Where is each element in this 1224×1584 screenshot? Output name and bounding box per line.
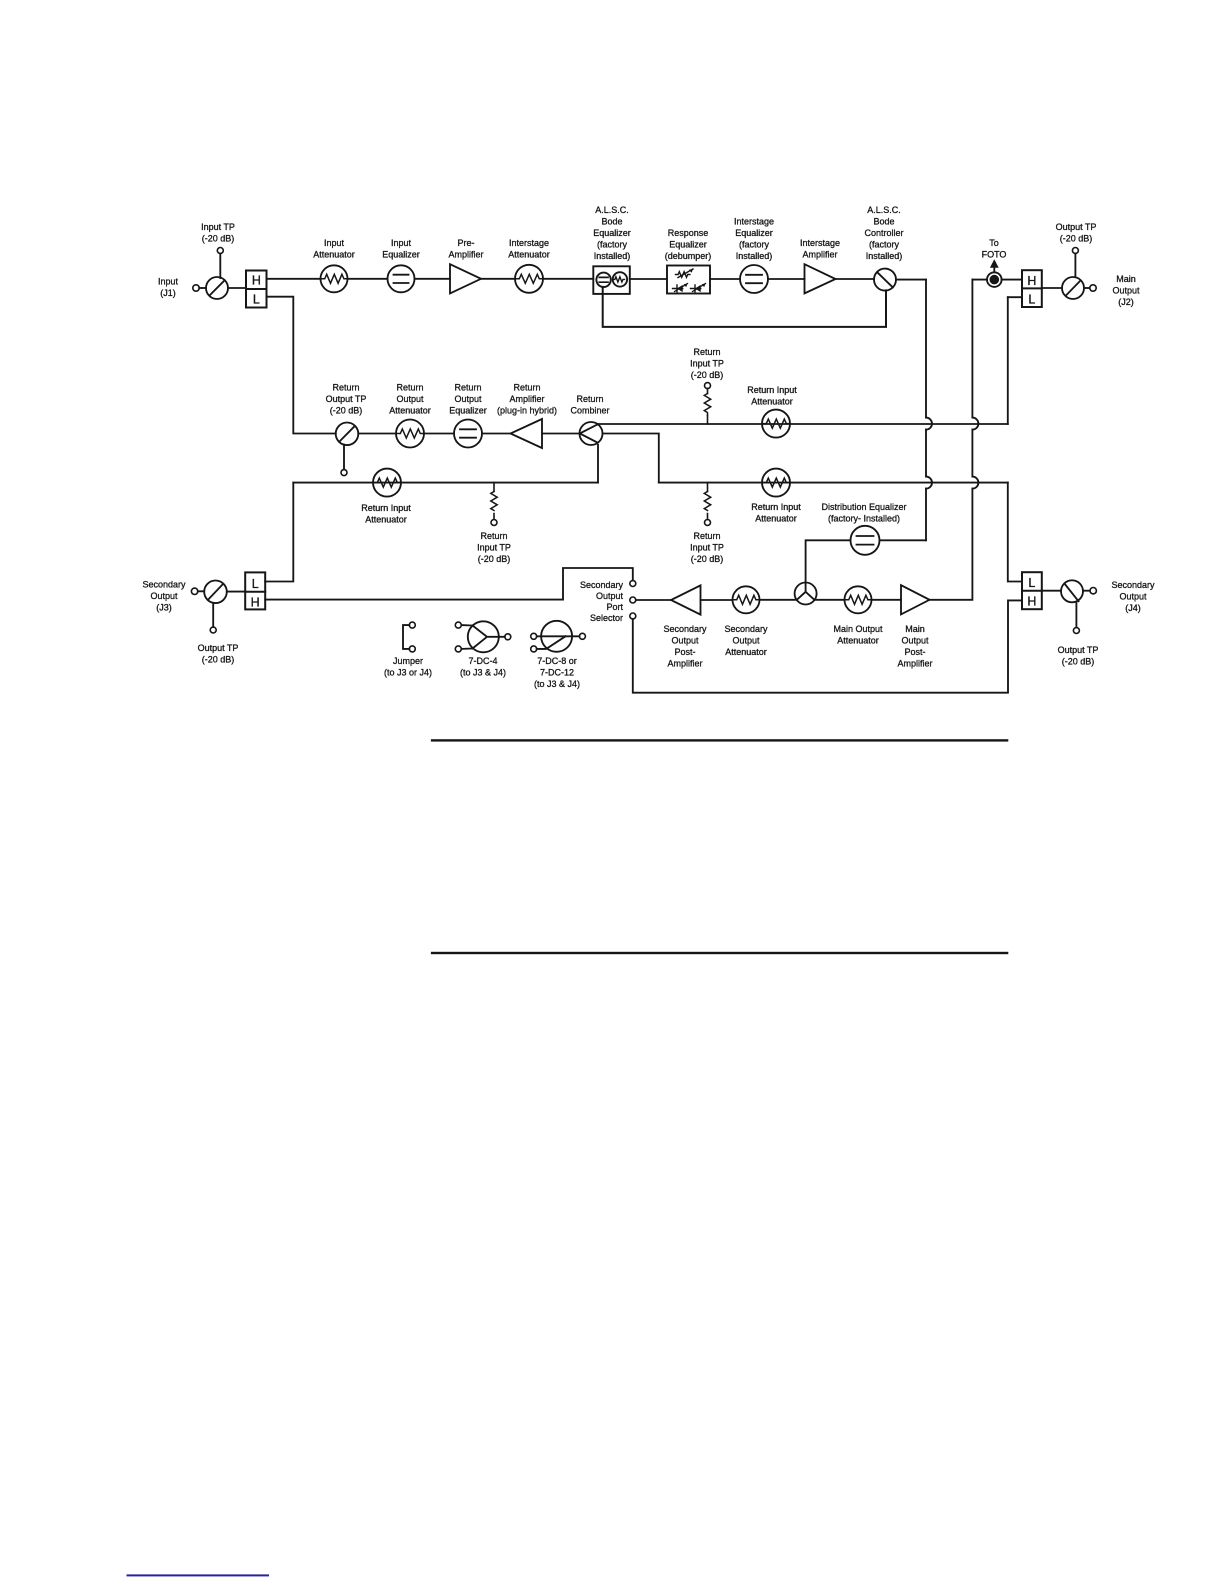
main output post-amplifier label	[897, 624, 932, 669]
rule top	[431, 739, 1008, 741]
wire TP1 to diplexer	[228, 287, 246, 289]
svg-text:Output: Output	[901, 636, 929, 646]
footnote rule (blue)	[127, 1574, 270, 1576]
wire TP3 to return output attenuator	[358, 433, 396, 435]
resistor test point tap R2 (down from y483 at x494)	[491, 483, 497, 526]
svg-text:Main: Main	[1116, 274, 1136, 284]
node Input (J1) label	[158, 277, 179, 299]
rule bottom	[431, 952, 1008, 954]
interstage attenuator label	[508, 238, 550, 260]
terminal J1	[193, 285, 199, 291]
diplex filter H/L (left)	[246, 271, 267, 308]
wire to response equalizer	[630, 278, 667, 280]
coupler 7-DC-8 / 7-DC-12	[531, 621, 586, 652]
svg-text:Secondary: Secondary	[1111, 580, 1155, 590]
main output attenuator label	[833, 624, 883, 646]
attenuator symbol (Return Input Attenuator, J2 path)	[762, 410, 790, 438]
svg-text:Input TP: Input TP	[690, 359, 724, 369]
svg-text:7-DC-8 or: 7-DC-8 or	[537, 656, 577, 666]
wire vertical x293 (J3 return riser)	[265, 483, 293, 582]
svg-text:(to J3 or J4): (to J3 or J4)	[384, 668, 432, 678]
svg-text:FOTO: FOTO	[982, 250, 1007, 260]
svg-text:L: L	[252, 577, 259, 591]
wire controller to right corner	[896, 279, 926, 281]
wire to secondary output attenuator	[701, 599, 733, 601]
svg-text:Return Input: Return Input	[747, 385, 797, 395]
port selector contact 2	[630, 597, 636, 603]
coupler A.L.S.C. Bode Controller	[874, 269, 896, 291]
op-amp Return Amplifier triangle (left pointing)	[511, 419, 543, 448]
svg-text:Return: Return	[693, 347, 720, 357]
wire L in from vertical x1008	[1008, 296, 1022, 298]
Response Equalizer (debumper) box	[667, 266, 710, 294]
svg-text:Post-: Post-	[674, 647, 695, 657]
svg-text:(J4): (J4)	[1125, 603, 1141, 613]
svg-text:Jumper: Jumper	[393, 656, 423, 666]
svg-text:Equalizer: Equalizer	[669, 240, 707, 250]
svg-text:Amplifier: Amplifier	[509, 394, 544, 404]
svg-text:(J3): (J3)	[156, 603, 172, 613]
attenuator symbol (Return Input Attenuator, J4 path)	[762, 469, 790, 497]
svg-text:(-20 dB): (-20 dB)	[202, 234, 235, 244]
return output attenuator label	[389, 383, 431, 416]
svg-text:Output TP: Output TP	[198, 643, 239, 653]
interstage amplifier label	[800, 238, 840, 260]
svg-text:Attenuator: Attenuator	[365, 515, 407, 525]
combiner Return Combiner	[580, 422, 603, 445]
return input attenuator (right, J4 path) label	[751, 502, 801, 524]
svg-text:(-20 dB): (-20 dB)	[1062, 657, 1095, 667]
wire ALSC feedback (Bode EQ to Bode Controller)	[603, 287, 886, 327]
test point coupler TP3 (Return Output TP)	[336, 423, 359, 476]
port selector contact 1	[630, 581, 636, 587]
wire diplexer to output TP J2	[1042, 287, 1062, 289]
return amplifier label	[497, 383, 557, 416]
7-DC-4 label	[460, 656, 506, 678]
attenuator symbol (Main Output Attenuator)	[845, 586, 872, 613]
wire to interstage amplifier	[768, 278, 805, 280]
svg-text:Installed): Installed)	[594, 251, 631, 261]
equalizer symbol (Input Equalizer)	[388, 265, 415, 292]
svg-text:Amplifier: Amplifier	[667, 659, 702, 669]
svg-text:Secondary: Secondary	[142, 580, 186, 590]
port selector contact 3	[630, 613, 636, 619]
wire to return amplifier	[482, 433, 511, 435]
ALSC Bode Controller label	[864, 205, 903, 261]
equalizer symbol (Return Output Equalizer)	[454, 420, 482, 448]
wire J3 terminal to TP5	[198, 590, 204, 592]
wire main output up to FOTO line	[972, 279, 987, 281]
wire combiner middle port jog to row y483	[603, 434, 659, 483]
svg-text:(-20 dB): (-20 dB)	[202, 655, 235, 665]
wire J3 H out to port selector riser	[265, 568, 633, 600]
input attenuator label	[313, 238, 355, 260]
svg-text:Input: Input	[324, 238, 345, 248]
Return Input TP label (above row y424)	[690, 347, 724, 380]
svg-text:Output TP: Output TP	[326, 394, 367, 404]
wire J1 to input TP coupler	[199, 287, 206, 289]
terminal J2	[1090, 285, 1096, 291]
svg-text:Amplifier: Amplifier	[802, 250, 837, 260]
wire distribution equalizer left down to splitter	[806, 540, 851, 582]
wire row3 right y483 (hops at x926,x972)	[659, 482, 1008, 484]
wire to interstage attenuator	[481, 278, 515, 280]
svg-text:L: L	[253, 292, 260, 306]
wire distribution equalizer right to x926	[880, 539, 927, 541]
attenuator symbol (Interstage Attenuator)	[515, 265, 543, 293]
svg-text:Output: Output	[596, 591, 624, 601]
svg-text:Output TP: Output TP	[1056, 222, 1097, 232]
svg-text:(J1): (J1)	[160, 288, 176, 298]
svg-text:Equalizer: Equalizer	[735, 228, 773, 238]
svg-text:Return: Return	[513, 383, 540, 393]
svg-text:Attenuator: Attenuator	[725, 647, 767, 657]
wire hop x926 over y483	[926, 477, 932, 489]
svg-text:Output: Output	[396, 394, 424, 404]
svg-text:(-20 dB): (-20 dB)	[1060, 234, 1093, 244]
wire to main output post-amplifier	[872, 599, 902, 601]
wire row3 left y483	[293, 482, 598, 484]
attenuator symbol (Secondary Output Attenuator)	[733, 586, 760, 613]
svg-text:H: H	[251, 595, 260, 609]
svg-text:Post-: Post-	[904, 647, 925, 657]
Return Input TP label (below x707)	[690, 531, 724, 564]
svg-text:Bode: Bode	[601, 217, 622, 227]
svg-text:(J2): (J2)	[1118, 297, 1134, 307]
svg-text:H: H	[1027, 274, 1036, 288]
wire FOTO to right diplexer	[1002, 279, 1022, 281]
A.L.S.C. Bode Equalizer box	[593, 266, 630, 294]
svg-text:Return: Return	[454, 383, 481, 393]
svg-text:(factory: (factory	[739, 240, 770, 250]
resistor test point tap R1 (up from y424)	[704, 383, 710, 424]
terminal J3	[191, 588, 197, 594]
wire to interstage equalizer	[710, 278, 740, 280]
splitter 7-DC-4	[455, 621, 511, 652]
svg-text:7-DC-4: 7-DC-4	[468, 656, 497, 666]
svg-text:Return Input: Return Input	[361, 503, 411, 513]
svg-text:Interstage: Interstage	[800, 238, 840, 248]
svg-text:To: To	[989, 238, 999, 248]
svg-text:Input TP: Input TP	[690, 543, 724, 553]
splitter (3-way)	[795, 583, 817, 605]
svg-text:Equalizer: Equalizer	[449, 406, 487, 416]
svg-text:Attenuator: Attenuator	[751, 397, 793, 407]
node Main Output (J2) label	[1112, 274, 1140, 307]
svg-text:Output: Output	[454, 394, 482, 404]
svg-text:Input TP: Input TP	[477, 543, 511, 553]
svg-text:Equalizer: Equalizer	[593, 228, 631, 238]
diplex filter L/H (right bottom, J4)	[1022, 572, 1042, 609]
svg-text:Return Input: Return Input	[751, 502, 801, 512]
wire vertical x1008 (J2 return) down to y424 row	[1007, 297, 1009, 424]
svg-text:L: L	[1028, 576, 1035, 590]
wire to input equalizer	[348, 278, 388, 280]
wire hop x972 over y483	[972, 477, 978, 489]
test point coupler TP1 (Input TP)	[206, 248, 228, 300]
svg-text:Attenuator: Attenuator	[508, 250, 550, 260]
attenuator symbol (Return Input Attenuator, J3 path)	[373, 469, 401, 497]
jumper label	[384, 656, 432, 678]
return combiner label	[570, 394, 609, 416]
Secondary Output Port Selector label	[580, 580, 624, 623]
node Secondary Output (J3) label	[142, 580, 186, 613]
svg-text:Combiner: Combiner	[570, 406, 609, 416]
svg-text:Output: Output	[150, 591, 178, 601]
To FOTO label	[982, 238, 1007, 260]
wire to ALSC Bode equalizer	[543, 278, 593, 280]
wire vertical x926 down to distribution equalizer (with hops)	[925, 280, 927, 541]
svg-text:Amplifier: Amplifier	[448, 250, 483, 260]
wire left diplexer L out, down x293 to return row	[267, 297, 336, 434]
svg-text:Input: Input	[158, 277, 179, 287]
wire H out to input attenuator	[267, 278, 321, 280]
svg-text:(to J3 & J4): (to J3 & J4)	[460, 668, 506, 678]
attenuator symbol (Input Attenuator)	[321, 265, 348, 292]
svg-text:(factory: (factory	[869, 240, 900, 250]
svg-text:Installed): Installed)	[866, 251, 903, 261]
wire hop x926 over y424	[926, 418, 932, 430]
pre-amplifier label	[448, 238, 483, 260]
svg-text:A.L.S.C.: A.L.S.C.	[867, 205, 901, 215]
svg-text:Output: Output	[732, 636, 760, 646]
svg-text:Interstage: Interstage	[509, 238, 549, 248]
wire return amplifier to combiner	[542, 433, 580, 435]
test point coupler TP4 (J4 Output TP)	[1061, 580, 1083, 633]
svg-text:Return: Return	[480, 531, 507, 541]
Return Input TP label (below x494)	[477, 531, 511, 564]
Return Output TP label	[326, 383, 367, 416]
wire vertical x1008 (J4 return riser)	[1008, 483, 1022, 582]
equalizer symbol (Interstage Equalizer)	[740, 265, 768, 293]
svg-text:Return: Return	[576, 394, 603, 404]
svg-text:Output: Output	[671, 636, 699, 646]
svg-text:Attenuator: Attenuator	[389, 406, 431, 416]
svg-text:(-20 dB): (-20 dB)	[691, 370, 724, 380]
terminal J4	[1090, 588, 1096, 594]
node Input TP (-20 dB) label J1	[201, 222, 235, 244]
Output TP J2 label	[1056, 222, 1097, 244]
attenuator symbol (Return Output Attenuator)	[396, 420, 424, 448]
wire TP4 to terminal J4	[1083, 590, 1090, 592]
svg-text:(to J3 & J4): (to J3 & J4)	[534, 679, 580, 689]
svg-text:Input TP: Input TP	[201, 222, 235, 232]
svg-text:A.L.S.C.: A.L.S.C.	[595, 205, 629, 215]
node Secondary Output (J4) label	[1111, 580, 1155, 613]
svg-text:Output: Output	[1112, 286, 1140, 296]
wire splitter to main output attenuator	[814, 599, 844, 601]
svg-text:Controller: Controller	[864, 228, 903, 238]
svg-text:Installed): Installed)	[736, 251, 773, 261]
svg-text:Equalizer: Equalizer	[382, 250, 420, 260]
wire selector contact2 to secondary post-amplifier	[636, 599, 671, 601]
interstage equalizer label	[734, 217, 774, 262]
jumper symbol	[403, 622, 415, 652]
svg-text:Return: Return	[693, 531, 720, 541]
Output TP J4 label	[1058, 645, 1099, 667]
svg-text:Return: Return	[396, 383, 423, 393]
return output equalizer label	[449, 383, 487, 416]
test point coupler TP5 (J3 Output TP)	[204, 581, 227, 634]
svg-text:Bode: Bode	[873, 217, 894, 227]
return input attenuator (top) label	[747, 385, 797, 407]
wire attenuator to splitter	[760, 599, 797, 601]
svg-text:(-20 dB): (-20 dB)	[330, 406, 363, 416]
svg-text:Interstage: Interstage	[734, 217, 774, 227]
svg-text:(debumper): (debumper)	[665, 251, 712, 261]
svg-text:Amplifier: Amplifier	[897, 659, 932, 669]
svg-text:Port: Port	[606, 602, 623, 612]
wire TP2 to terminal J2	[1084, 287, 1090, 289]
svg-text:H: H	[1027, 595, 1036, 609]
wire to pre-amplifier	[415, 278, 451, 280]
svg-text:(factory: (factory	[597, 240, 628, 250]
svg-text:(plug-in hybrid): (plug-in hybrid)	[497, 406, 557, 416]
op-amp Interstage Amplifier triangle	[805, 264, 836, 293]
wire selector contact3 down along bottom to J4 H	[633, 600, 1022, 692]
svg-text:(-20 dB): (-20 dB)	[691, 554, 724, 564]
svg-text:(-20 dB): (-20 dB)	[478, 554, 511, 564]
wire to bode controller	[836, 278, 875, 280]
svg-text:(factory- Installed): (factory- Installed)	[828, 514, 900, 524]
svg-text:Secondary: Secondary	[663, 624, 707, 634]
wire TP5 to J3 diplexer	[227, 591, 245, 593]
op-amp Pre-Amplifier triangle	[450, 264, 481, 293]
svg-text:Output TP: Output TP	[1058, 645, 1099, 655]
wire combiner top port row y424 to right (hops at x926,x972)	[598, 423, 1008, 425]
svg-text:Attenuator: Attenuator	[313, 250, 355, 260]
FOTO coupler (filled)	[987, 259, 1002, 287]
svg-text:Response: Response	[668, 228, 709, 238]
Output TP J3 label	[198, 643, 239, 665]
test point coupler TP2 (Output TP J2)	[1062, 248, 1084, 300]
svg-text:Main Output: Main Output	[833, 624, 883, 634]
wire hop x972 over y424	[972, 418, 978, 430]
svg-text:H: H	[252, 273, 261, 287]
op-amp Secondary Output Post-Amplifier (left pointing)	[671, 585, 701, 614]
resistor test point tap R3 (down from y483 at x707)	[704, 483, 710, 526]
svg-text:Attenuator: Attenuator	[755, 514, 797, 524]
secondary output post-amplifier label	[663, 624, 707, 669]
ALSC Bode Equalizer label	[593, 205, 631, 261]
svg-text:Secondary: Secondary	[724, 624, 768, 634]
svg-text:Distribution Equalizer: Distribution Equalizer	[821, 502, 906, 512]
svg-text:Output: Output	[1119, 592, 1147, 602]
wire J4 diplexer to TP4	[1042, 590, 1061, 592]
wire combiner bottom port down to left row y483	[597, 445, 599, 483]
wire post-amplifier up riser x972 to FOTO	[930, 280, 973, 600]
svg-text:Secondary: Secondary	[580, 580, 624, 590]
input equalizer label	[382, 238, 420, 260]
wire to return output equalizer	[424, 433, 454, 435]
7-DC-8 label	[534, 656, 580, 689]
return input attenuator (left) label	[361, 503, 411, 525]
svg-text:Input: Input	[391, 238, 412, 248]
equalizer symbol (Distribution Equalizer)	[851, 526, 880, 555]
svg-text:L: L	[1028, 293, 1035, 307]
op-amp Main Output Post-Amplifier triangle	[901, 585, 930, 614]
svg-text:7-DC-12: 7-DC-12	[540, 668, 574, 678]
svg-text:Pre-: Pre-	[457, 238, 474, 248]
response equalizer label	[665, 228, 712, 261]
svg-text:Attenuator: Attenuator	[837, 636, 879, 646]
diplex filter H/L (right top)	[1022, 270, 1042, 307]
svg-text:Return: Return	[332, 383, 359, 393]
diplex filter L/H (left bottom, J3)	[245, 572, 265, 609]
svg-text:Main: Main	[905, 624, 925, 634]
secondary output attenuator label	[724, 624, 768, 657]
Distribution Equalizer label	[821, 502, 906, 524]
svg-text:Selector: Selector	[590, 613, 623, 623]
